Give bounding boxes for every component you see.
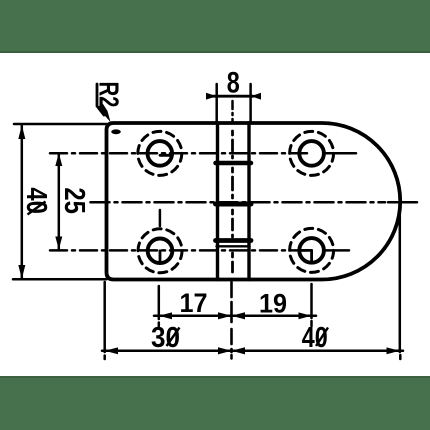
arrow 40b left xyxy=(232,347,246,354)
knuckle divider bar 3 xyxy=(216,238,252,243)
countersink dashed circle bottom-left xyxy=(138,229,182,273)
artifact stub inside hole bottom-right vertical xyxy=(310,250,313,262)
dim 8 extension left xyxy=(215,84,218,122)
pin mark box2 xyxy=(231,168,234,198)
knuckle left vertical xyxy=(216,123,219,280)
hole bottom-left xyxy=(148,239,173,264)
dimension 25 vertical line xyxy=(58,154,61,249)
dim 17 extension left xyxy=(158,286,161,319)
svg-text:30: 30 xyxy=(151,322,180,354)
knuckle right vertical xyxy=(247,123,250,280)
arrow 8dim left outside xyxy=(206,93,217,100)
pin centerline above hinge xyxy=(231,101,234,121)
hole top-left xyxy=(148,141,173,166)
R2 leader line xyxy=(97,84,104,115)
arrow 17 right xyxy=(218,312,232,319)
dim 19 extension right dot xyxy=(310,321,313,326)
svg-text:40: 40 xyxy=(302,322,328,354)
arrow 8dim right outside xyxy=(251,93,261,100)
hole top-right xyxy=(299,141,324,166)
center extension dot below xyxy=(230,355,233,359)
dim 40 extension right dot xyxy=(399,355,402,359)
arrow 19 right xyxy=(299,312,312,319)
knuckle divider bar 1 xyxy=(216,161,252,166)
dim 40 extension right xyxy=(399,208,402,352)
countersink dashed circle top-right xyxy=(290,131,334,175)
pin mark box4 xyxy=(231,253,234,276)
slash on 0 of left 40 xyxy=(28,202,46,215)
center extension line (dash-dot) xyxy=(230,282,233,352)
arrow 30 left xyxy=(105,347,118,354)
hole bottom-right xyxy=(299,238,324,263)
centerline middle axis xyxy=(91,201,386,204)
centerline tick above hole bottom-left xyxy=(159,210,162,226)
hinge outline xyxy=(107,123,401,280)
dim 30/40 line xyxy=(102,350,403,353)
countersink dashed circle bottom-right xyxy=(290,228,334,272)
dim 30 extension left dot xyxy=(103,356,106,360)
dim 17/19 line xyxy=(154,315,316,318)
top extension line left of hinge xyxy=(14,123,107,126)
arrow 40b right xyxy=(387,347,400,354)
centerline bottom holes right part xyxy=(326,249,349,252)
green letterbox band bottom xyxy=(0,376,430,430)
artifact stub inside hole bottom-left xyxy=(159,251,162,263)
countersink dashed circle top-left xyxy=(138,131,182,175)
dim 17 extension left dot xyxy=(158,323,161,327)
svg-text:17: 17 xyxy=(180,288,208,318)
artifact stub inside hole top-left xyxy=(160,154,172,157)
svg-text:40: 40 xyxy=(20,187,52,214)
svg-text:19: 19 xyxy=(259,289,287,319)
artifact stub inside hole bottom-right horizontal xyxy=(300,249,312,252)
arrow 40dim down xyxy=(18,265,25,279)
dimension 40 vertical line xyxy=(21,126,24,278)
centerline top holes xyxy=(50,152,312,155)
arrow 40dim up xyxy=(18,125,25,139)
centerline middle axis arc crossing xyxy=(388,201,417,204)
small mark under corner xyxy=(111,129,121,134)
arrow 25dim down xyxy=(55,237,62,250)
arrow 17 left xyxy=(159,312,172,319)
dim 30 extension left xyxy=(103,282,106,352)
bottom extension line left of hinge xyxy=(13,278,107,281)
R2 leader arrowhead xyxy=(97,104,111,122)
dim 19 extension right xyxy=(310,284,313,318)
arrow 25dim up xyxy=(55,153,62,166)
slash on 0 of 30 xyxy=(167,328,180,347)
pin mark box1 xyxy=(231,131,234,158)
dim 8 line xyxy=(213,95,253,98)
knuckle extra line below bar 3 xyxy=(217,245,250,247)
arrow 19 left xyxy=(232,312,246,319)
arrow 30 right xyxy=(218,347,232,354)
svg-text:25: 25 xyxy=(58,187,90,214)
knuckle divider bar 2 xyxy=(216,202,252,207)
dim 8 extension right xyxy=(249,84,252,122)
slash on 0 of bottom 40 xyxy=(316,328,328,347)
pin mark box3 xyxy=(231,210,234,237)
centerline top holes right part xyxy=(326,152,356,155)
svg-text:R2: R2 xyxy=(94,82,125,108)
centerline bottom holes xyxy=(50,249,312,252)
green letterbox band top xyxy=(0,0,430,53)
svg-text:8: 8 xyxy=(227,67,240,100)
